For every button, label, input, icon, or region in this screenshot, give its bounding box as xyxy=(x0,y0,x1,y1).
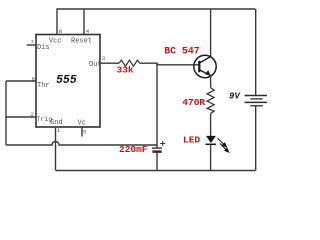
transistor Q1 collector diagonal xyxy=(199,57,210,63)
diode D1 cathode bar xyxy=(206,143,217,145)
transistor Q1 emitter diagonal with arrow xyxy=(199,70,210,76)
wire pin7 Dis stub xyxy=(27,44,36,46)
svg-text:8: 8 xyxy=(59,28,63,35)
wire pin5 Vc stub xyxy=(81,127,83,137)
wire top rail Vcc xyxy=(57,9,256,35)
svg-text:5: 5 xyxy=(83,129,87,136)
wire resistor to transistor base xyxy=(140,63,200,65)
wire resistor to LED xyxy=(210,114,212,137)
capacitor C1 plus sign xyxy=(160,141,165,146)
wire emitter to resistor xyxy=(210,76,212,88)
wire pin6 Thr xyxy=(6,80,36,82)
wire right rail to battery xyxy=(255,9,257,96)
svg-text:BC 547: BC 547 xyxy=(164,46,199,57)
diode D1 LED triangle xyxy=(206,136,216,143)
battery BT1 plates xyxy=(245,96,268,106)
svg-text:LED: LED xyxy=(183,135,200,146)
wire pin3 Out to resistor xyxy=(100,62,119,64)
svg-text:Vcc: Vcc xyxy=(49,38,62,46)
diode D1 light arrows xyxy=(218,138,229,152)
svg-text:3: 3 xyxy=(102,55,106,62)
wire battery to bottom rail xyxy=(255,106,257,171)
svg-text:9V: 9V xyxy=(229,92,241,102)
capacitor C1 220mF polarized xyxy=(152,147,162,149)
svg-text:555: 555 xyxy=(56,74,77,87)
wire collector from top rail xyxy=(210,9,212,57)
wire junction to capacitor top xyxy=(156,63,158,147)
wire left vertical Thr-Trig-cap xyxy=(5,81,7,145)
wire LED to bottom rail xyxy=(210,144,212,170)
svg-text:Out: Out xyxy=(89,61,102,69)
wire pin4 Reset to top rail xyxy=(83,9,85,35)
svg-text:Dis: Dis xyxy=(37,44,50,52)
svg-text:Reset: Reset xyxy=(71,38,92,46)
wire pin2 Trig xyxy=(6,116,36,118)
svg-text:Vc: Vc xyxy=(78,119,86,127)
svg-text:Thr: Thr xyxy=(37,82,50,90)
svg-text:4: 4 xyxy=(86,28,90,35)
svg-text:220mF: 220mF xyxy=(119,144,148,155)
svg-text:470R: 470R xyxy=(182,97,205,108)
wire bottom rail xyxy=(56,170,256,172)
wire pin1 Gnd vertical xyxy=(55,127,57,171)
transistor Q1 BC547 circle xyxy=(194,55,216,77)
svg-text:1: 1 xyxy=(57,127,61,134)
transistor Q1 base bar xyxy=(198,61,200,72)
resistor R1 33k zigzag xyxy=(119,60,140,66)
IC U1 555 body xyxy=(36,35,100,128)
wire capacitor to bottom rail xyxy=(156,153,158,171)
svg-text:33k: 33k xyxy=(117,65,134,76)
resistor R2 470R zigzag xyxy=(207,88,214,114)
wire to cap with crossover hump xyxy=(6,142,157,146)
